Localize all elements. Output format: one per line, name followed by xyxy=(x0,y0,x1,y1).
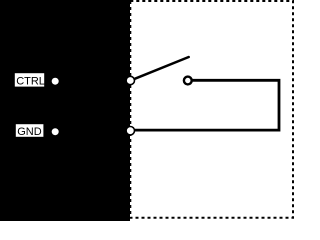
svg-text:CTRL: CTRL xyxy=(16,76,45,88)
svg-text:GND: GND xyxy=(17,126,42,138)
